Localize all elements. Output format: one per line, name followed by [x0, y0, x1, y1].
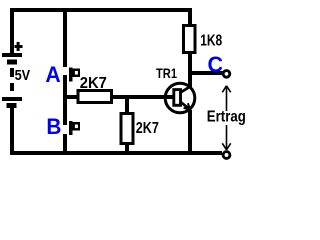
- svg-text:A: A: [45, 62, 60, 87]
- svg-text:TR1: TR1: [156, 65, 177, 81]
- svg-text:2K7: 2K7: [80, 75, 107, 92]
- svg-text:C: C: [208, 52, 224, 77]
- svg-text:1K8: 1K8: [200, 33, 222, 50]
- svg-text:B: B: [46, 114, 61, 139]
- svg-text:2K7: 2K7: [136, 120, 159, 137]
- svg-text:5V: 5V: [15, 68, 31, 84]
- svg-text:Ertrag: Ertrag: [207, 109, 246, 126]
